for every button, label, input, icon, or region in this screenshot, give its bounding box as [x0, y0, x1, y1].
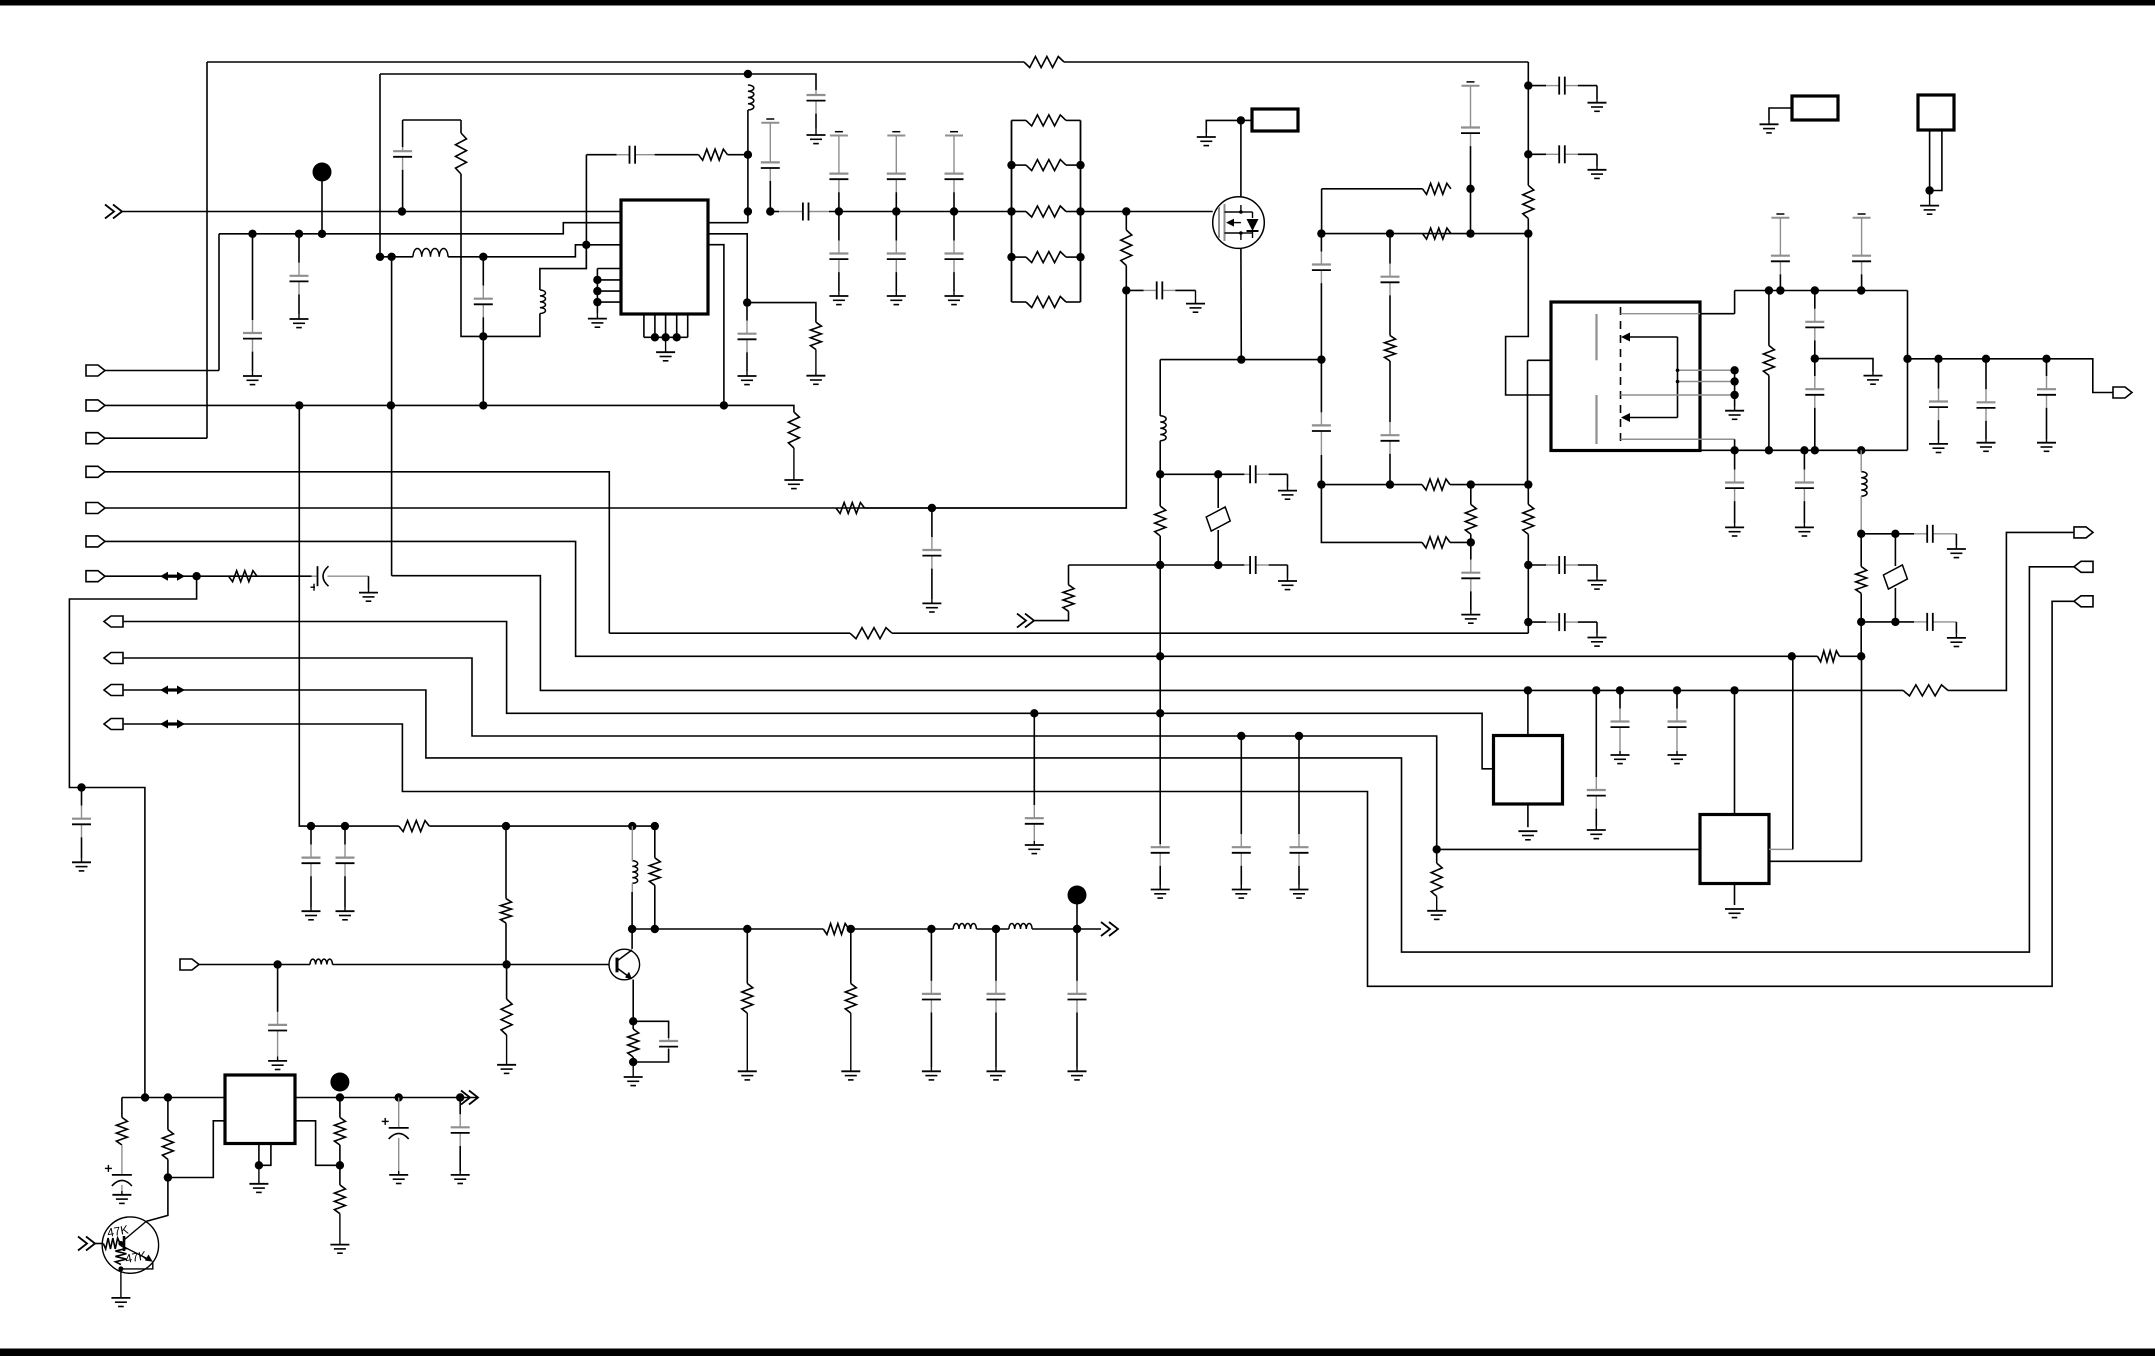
junction U2 tap2 out	[1730, 377, 1738, 385]
transistor Q3 MOSFET body	[1213, 197, 1265, 249]
module U2 source link	[1677, 337, 1679, 418]
resistor R7	[1422, 479, 1450, 490]
ground G_C40	[1587, 826, 1606, 839]
capacitor Ctop1	[829, 167, 848, 212]
junction blob tap	[318, 230, 326, 238]
junction y929 e	[1073, 925, 1081, 933]
capacitor C43	[302, 826, 321, 907]
wire C33 gnd	[1955, 622, 1957, 634]
junction bus C42	[1673, 686, 1681, 694]
capacitor C26	[1805, 359, 1824, 451]
junction emitter RC	[629, 1017, 637, 1025]
connector J3 output arrow	[2113, 387, 2132, 398]
wire Q3 source vertical	[1240, 248, 1242, 359]
wire bridge top	[540, 245, 586, 290]
wire R35 up	[339, 1165, 341, 1185]
wire x1127 long vertical	[836, 290, 1126, 508]
wire in chain	[199, 964, 310, 966]
wire V2 vertical x380	[379, 74, 381, 257]
wire C5 corner down	[585, 155, 587, 245]
wire R33 up	[167, 1098, 169, 1130]
junction out c	[456, 1093, 464, 1101]
junction out a	[336, 1093, 344, 1101]
ground G_C35	[359, 589, 378, 601]
ground Gcol3	[945, 291, 964, 305]
wire R31 up	[506, 965, 508, 1000]
wire Rbank3 leadr	[1066, 211, 1081, 213]
ground G_C37	[1025, 841, 1044, 854]
inductor L2 bridge	[540, 290, 546, 314]
wire base	[506, 964, 609, 966]
IC U1 lower-left pin b	[597, 279, 621, 281]
capacitor Ctop3	[945, 167, 964, 212]
wire R26 dn	[654, 885, 656, 929]
wire W2 second rail	[380, 73, 748, 75]
junction pin3 node	[582, 241, 590, 249]
connector A9	[104, 653, 123, 664]
capacitor C48	[659, 1038, 678, 1049]
ground G_C12	[1151, 885, 1170, 898]
wire Rbank5 leadr	[1066, 301, 1081, 303]
wire W2 to corner	[748, 74, 816, 90]
wire gate1 feed	[1528, 359, 1597, 361]
wire W1 top rail left	[207, 61, 1024, 63]
wire R5 leads	[1159, 474, 1161, 506]
wire R13 leads	[1527, 154, 1529, 185]
resistor R24	[399, 821, 430, 832]
wire rail y233	[219, 223, 621, 234]
junction out b	[395, 1093, 403, 1101]
wire A6 bus	[105, 541, 1792, 656]
capacitor C16	[1381, 234, 1400, 336]
power flag P1	[761, 119, 779, 159]
wire R30 dn	[632, 1057, 634, 1062]
connector J5 input	[180, 959, 199, 970]
wire Z1 leads	[1217, 474, 1219, 508]
capacitor C14	[1312, 360, 1331, 455]
wire Z2 dn	[1894, 588, 1896, 622]
top border bar	[0, 0, 2155, 6]
junction C4 top	[479, 253, 487, 261]
ground G_X2	[1760, 120, 1779, 133]
wire A8 bus	[124, 622, 1494, 769]
junction rail L6	[628, 822, 636, 830]
transistor Q2 emitter line	[617, 968, 632, 979]
resistor R_top	[1024, 57, 1064, 68]
wire supply rail	[299, 405, 399, 826]
ground G_C43	[302, 907, 321, 920]
junction y485 R8	[1467, 480, 1475, 488]
wire adj loop	[168, 1121, 225, 1178]
IC U1 bottom pin stub5	[687, 314, 689, 337]
transistor Q3 drain-source inner	[1239, 205, 1243, 240]
wire R25 dn	[505, 923, 507, 964]
capacitor C34	[922, 508, 941, 599]
ground Gcol1	[829, 291, 848, 305]
wire A10 bus	[124, 567, 2074, 952]
wire X2 left	[1769, 108, 1792, 120]
capacitor C37	[1025, 713, 1044, 841]
junction R4 top	[1122, 207, 1130, 215]
resistor R19	[1818, 651, 1840, 662]
wire C10 gnd	[1287, 474, 1289, 487]
wire C21 gnd	[1596, 565, 1598, 577]
wire C19 gnd	[1596, 86, 1598, 99]
junction y485 x1321	[1317, 480, 1325, 488]
inductor L3	[413, 248, 448, 256]
resistor R10	[1423, 228, 1452, 239]
resistor R28	[742, 984, 753, 1014]
ground G_y358	[1864, 372, 1883, 385]
resistor R30	[628, 1029, 639, 1057]
wire R30 leads	[632, 1021, 634, 1029]
wire row633	[609, 632, 850, 634]
resistor R16	[1856, 567, 1867, 594]
connector A12	[104, 719, 123, 730]
transistor Q3 gate bar	[1219, 204, 1225, 241]
capacitor C2	[243, 234, 262, 371]
capacitor C23	[1771, 248, 1790, 291]
capacitor C41	[1611, 690, 1630, 751]
wire Rbank4 leadr	[1066, 256, 1081, 258]
wire U2 taps gnd bus	[1734, 370, 1736, 406]
IC U1	[621, 200, 708, 314]
capacitor C50 electrolytic	[105, 1145, 132, 1191]
wire x1321 vert3	[1321, 485, 1422, 543]
resistor bank frame left	[1011, 120, 1013, 302]
inductor L4	[1160, 416, 1166, 441]
transistor Q1 collector	[124, 1221, 146, 1240]
wire main bus y690 end	[1948, 532, 2074, 690]
connector A10	[104, 685, 123, 696]
capacitor Cbot1	[829, 212, 848, 292]
resistor R15	[1763, 346, 1774, 376]
connector A2	[86, 400, 105, 411]
resistor bank frame right	[1080, 120, 1082, 302]
wire y474 row	[1160, 473, 1244, 475]
wire L1 down to pin	[747, 110, 749, 223]
transistor Q1 body	[102, 1217, 158, 1273]
bottom border bar	[0, 1349, 2155, 1356]
ground G_C33	[1947, 634, 1966, 647]
ground G_R17	[784, 448, 803, 489]
connector A14 output right3	[2074, 527, 2093, 538]
junction y542 R8	[1467, 538, 1475, 546]
net blob OUT	[1068, 886, 1087, 905]
junction U5 in a	[141, 1093, 149, 1101]
capacitor C3	[290, 234, 309, 314]
wire x1160 cap dn	[1159, 656, 1161, 844]
junction Q1 base	[118, 1241, 123, 1246]
junction y450 d	[1811, 446, 1819, 454]
wire Q1 collector feed	[146, 1178, 168, 1222]
resistor R5	[1155, 506, 1166, 536]
capacitor C47	[1068, 929, 1087, 1067]
junction bank left 3	[1007, 253, 1015, 261]
wire x1321 vert2	[1320, 455, 1322, 485]
wire R21 up	[1436, 849, 1438, 863]
resistor Rbank2	[1026, 160, 1066, 171]
ground G_C6	[738, 371, 757, 385]
power flag P2	[1462, 82, 1480, 123]
junction y302 node	[743, 298, 751, 306]
junction cap chain x1321	[1317, 355, 1325, 363]
module U2 fet1 arrow	[1621, 333, 1678, 342]
ground G_C38	[1232, 885, 1251, 898]
wire drain to box	[1241, 119, 1252, 121]
junction R26 bot	[651, 925, 659, 933]
wire y542 row2	[1450, 541, 1471, 543]
connector A6	[86, 536, 105, 547]
capacitor C12	[1151, 844, 1170, 885]
junction x1528 y154	[1524, 150, 1532, 158]
junction x1528 y622	[1524, 618, 1532, 626]
junction bpin4	[673, 333, 681, 341]
wire x1160 to row656	[1159, 565, 1161, 656]
junction R12 node	[1466, 185, 1474, 193]
wire R25 up	[505, 826, 507, 899]
capacitor C39	[1290, 736, 1309, 885]
inductor L8	[1009, 923, 1032, 929]
wire U3 gnd stub	[1527, 804, 1529, 827]
junction col1	[835, 207, 843, 215]
junction A8 capleg	[1030, 709, 1038, 717]
transistor Q2 base bar	[616, 958, 619, 973]
wire x1528 lower vert	[1527, 360, 1529, 484]
capacitor C42	[1668, 690, 1687, 751]
IC U1 lower-left pin c	[597, 290, 621, 292]
wire Q1 emitter loop	[121, 1262, 153, 1269]
capacitor C15	[1461, 542, 1480, 610]
ground G_w2	[807, 128, 826, 144]
wire drain vertical	[1240, 120, 1242, 197]
junction Q1 emitter node	[118, 1266, 123, 1271]
junction y929 b	[847, 925, 855, 933]
junction A9row C38	[1237, 732, 1245, 740]
wire R1 top lead	[460, 120, 462, 133]
junction R2/L1	[744, 151, 752, 159]
diode D1 body diode	[1241, 212, 1259, 238]
junction rail C43	[307, 822, 315, 830]
wire x1470 vert	[1470, 189, 1472, 234]
junction rail C24	[1857, 286, 1865, 294]
wire R16 up	[1860, 534, 1862, 567]
junction y485 x1528	[1524, 480, 1532, 488]
wire x1861 to row656	[1860, 622, 1862, 656]
wire x1528 corner top	[1527, 62, 1529, 86]
wire step to pin3	[483, 245, 621, 257]
connector A1	[86, 365, 105, 376]
wire Q1 base wire	[95, 1243, 103, 1245]
capacitor C10	[1244, 465, 1287, 483]
wire y358 gnd row	[1815, 359, 1873, 372]
IC U5 bottom stub2	[259, 1144, 271, 1166]
resistor R35	[334, 1185, 345, 1214]
junction y533 b	[1891, 530, 1899, 538]
junction y485 R7	[1386, 480, 1394, 488]
capacitor C17	[1381, 361, 1400, 485]
wire y211 row caps	[770, 211, 779, 213]
capacitor C6	[738, 303, 757, 371]
ground Gcol2	[887, 291, 906, 305]
ground G_C34	[922, 599, 941, 612]
resistor R1 loop	[456, 133, 467, 174]
ground G_C21	[1588, 577, 1607, 589]
ground G_C44	[336, 907, 355, 920]
capacitor Ctop2	[887, 167, 906, 212]
junction bus box5	[1730, 686, 1738, 694]
wire U5 in corner	[121, 1098, 123, 1118]
wire R8 leads	[1470, 485, 1472, 505]
junction bank left 2	[1007, 207, 1015, 215]
junction col3	[950, 207, 958, 215]
junction y450 c	[1800, 446, 1808, 454]
capacitor C7	[761, 159, 780, 212]
wire R12 left	[1322, 188, 1423, 190]
IC U1 bottom pin stub2	[654, 314, 656, 337]
resistor R13	[1523, 185, 1534, 218]
wire R12 corner	[1321, 189, 1323, 234]
junction RC bot	[629, 1058, 637, 1066]
ground G_X1	[1197, 133, 1216, 146]
junction rail C44	[341, 822, 349, 830]
junction bank right 2	[1076, 207, 1084, 215]
resistor R21	[1431, 863, 1442, 896]
wire C20 gnd	[1596, 154, 1598, 166]
power flag Pcol2	[887, 132, 905, 167]
junction A7 branch	[192, 572, 200, 580]
junction x1321 y233	[1317, 229, 1325, 237]
ground G_C41	[1611, 751, 1630, 764]
junction x380 bottom	[376, 253, 384, 261]
capacitor C30	[1725, 450, 1744, 523]
ground G_C15	[1461, 610, 1480, 623]
wire R15 dn	[1768, 375, 1770, 450]
resistor R37 47K	[115, 1246, 126, 1265]
wire rail b	[429, 825, 654, 827]
junction A8row x1160	[1156, 709, 1164, 717]
module U2 drain stub top	[1621, 313, 1735, 315]
capacitor C32	[1895, 525, 1956, 543]
wire pin3 gnd-bridge	[585, 245, 587, 269]
component box X2	[1792, 96, 1838, 120]
resistor R14	[1523, 504, 1534, 534]
wire drain gnd branch	[1206, 120, 1241, 133]
wire U4 pin1 riser2	[1769, 656, 1793, 849]
connector J1 input chevron	[105, 205, 122, 219]
wire bank to gate	[1081, 211, 1213, 213]
junction R34 mid	[336, 1161, 344, 1169]
junction row656 x1160	[1156, 652, 1164, 660]
wire y256 row	[380, 256, 413, 258]
wire R5 dn	[1159, 536, 1161, 565]
capacitor C31	[1795, 450, 1814, 523]
ground G_C52	[451, 1171, 470, 1184]
wire collector node	[631, 892, 633, 949]
wire A9 bus	[124, 658, 1437, 849]
wire c25 dn	[1814, 355, 1816, 359]
wire A7 row	[105, 575, 312, 577]
wire Rbank4 leads	[1012, 256, 1027, 258]
junction A9 box5	[1433, 845, 1441, 853]
capacitor C45	[922, 929, 941, 1067]
ground G_C2	[243, 371, 262, 385]
label 47K upper	[106, 1222, 129, 1239]
wire C11 gnd	[1287, 565, 1289, 578]
net blob VREG	[330, 1073, 349, 1092]
junction bank left 1	[1007, 161, 1015, 169]
bidir arrow B2	[160, 686, 185, 695]
capacitor C52	[451, 1098, 470, 1172]
ground G_R3	[806, 350, 825, 385]
wire L3 to C4	[448, 256, 483, 258]
junction A5 C34	[928, 504, 936, 512]
ground G_R31	[497, 1035, 516, 1073]
wire Z2 up	[1894, 534, 1896, 566]
inductor L5	[1861, 450, 1867, 530]
junction x1528 y233	[1524, 229, 1532, 237]
module U2 dual-MOSFET	[1551, 302, 1700, 451]
wire R4 lead низ	[1125, 266, 1127, 291]
ground G_C39	[1290, 885, 1309, 898]
junction bpin3	[661, 333, 669, 341]
wire W1 top rail right	[1064, 61, 1528, 63]
wire y622 row	[1861, 621, 1895, 623]
module U2 gate2 line	[1621, 394, 1732, 396]
capacitor C4	[474, 257, 493, 337]
ground G_Q1	[111, 1269, 130, 1307]
junction A2 x724	[720, 401, 728, 409]
capacitor C40	[1587, 690, 1606, 826]
ground G_U4	[1725, 909, 1744, 918]
wire U2 out vert right	[1907, 291, 1909, 451]
wire A2 bus	[105, 404, 724, 406]
capacitor C13	[1312, 234, 1331, 300]
ground G_C45	[922, 1067, 941, 1080]
connector J7 chevron in	[78, 1237, 95, 1251]
component box X1	[1252, 109, 1298, 131]
transistor Q1 emitter	[124, 1247, 153, 1262]
wire Rbank5 leads	[1012, 301, 1027, 303]
wire x1528 v2	[1527, 86, 1529, 155]
module U2 bottom stub	[1621, 439, 1735, 450]
junction in C49	[273, 960, 281, 968]
resistor Rbank1	[1026, 115, 1066, 126]
junction C3 tap	[295, 230, 303, 238]
junction bpin2	[651, 333, 659, 341]
ground G_U1left	[588, 313, 607, 327]
connector J2 chevron	[1017, 614, 1034, 628]
junction R33 bot	[164, 1173, 172, 1181]
resistor R20	[229, 571, 258, 582]
ground G_C32	[1947, 546, 1966, 558]
capacitor C36	[72, 788, 91, 859]
resistor R34	[334, 1117, 345, 1145]
wire y485 row	[1321, 484, 1422, 486]
wire Rbank1 leads	[1012, 119, 1027, 121]
IC U1 right pin y233	[708, 234, 747, 303]
wire cap branch b	[633, 1049, 668, 1062]
connector A7	[86, 571, 105, 582]
resistor R2	[699, 149, 728, 160]
wire box5 drop	[1734, 690, 1736, 814]
ground G_C27	[1929, 440, 1948, 453]
wire C35 gnd	[368, 576, 370, 589]
wire y485 row2	[1450, 484, 1528, 486]
junction C2 tap	[248, 230, 256, 238]
wire R34 up	[339, 1098, 341, 1118]
capacitor C22	[1528, 613, 1597, 631]
